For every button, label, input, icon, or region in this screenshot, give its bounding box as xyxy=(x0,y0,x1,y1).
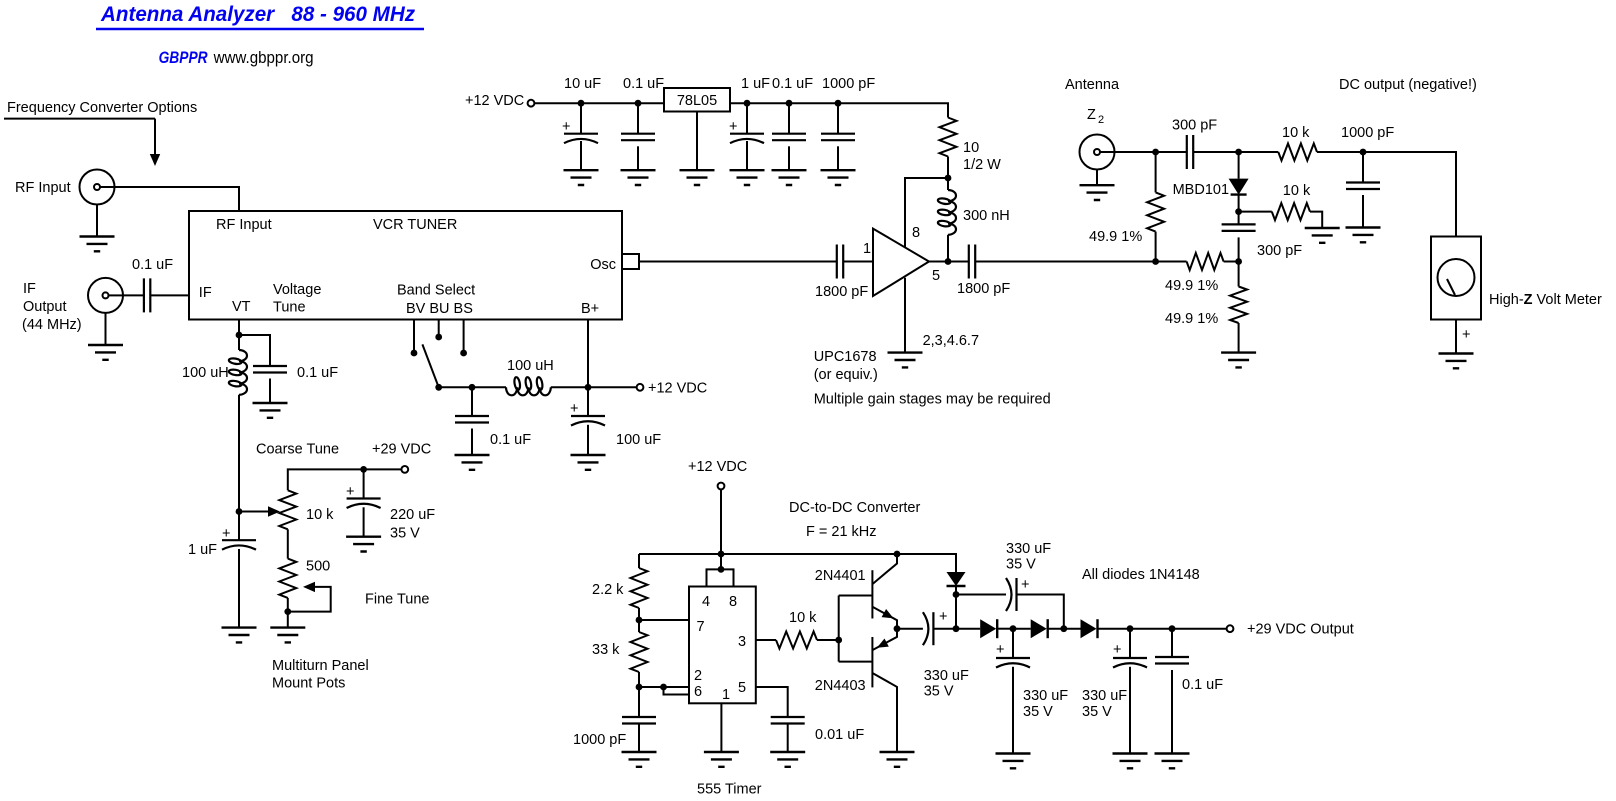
svg-text:+: + xyxy=(562,119,570,135)
wire node E to R7 xyxy=(1156,261,1187,263)
svg-text:www.gbppr.org: www.gbppr.org xyxy=(213,49,314,67)
ground C23 xyxy=(1155,754,1190,769)
wire node I to D4 xyxy=(1013,628,1031,630)
svg-text:+: + xyxy=(346,484,354,500)
wire C4 stem xyxy=(788,103,790,134)
wire C15 stem xyxy=(471,387,473,416)
wire J2 to C6 xyxy=(123,294,144,296)
resistor R10 33 k xyxy=(638,620,640,632)
junction xyxy=(945,258,952,265)
svg-text:500: 500 xyxy=(306,559,330,575)
svg-text:0.01 uF: 0.01 uF xyxy=(815,727,864,743)
svg-text:35 V: 35 V xyxy=(1082,704,1112,720)
ground Q2 xyxy=(880,752,915,767)
junction VT node xyxy=(236,332,243,339)
svg-text:8: 8 xyxy=(729,594,737,610)
capacitor C10 1000 pF xyxy=(1346,183,1380,190)
ground U1 xyxy=(888,353,923,368)
svg-text:10 k: 10 k xyxy=(306,507,334,523)
capacitor C23 0.1 uF xyxy=(1171,629,1173,657)
terminal +12 VDC xyxy=(528,100,535,107)
wire C3 stem xyxy=(746,103,748,134)
ground R8 xyxy=(1221,353,1256,368)
svg-text:10 k: 10 k xyxy=(1282,125,1310,141)
wire C1 stem xyxy=(580,103,582,134)
capacitor C14 220 uF 35V xyxy=(363,469,365,498)
wire R5 to node C xyxy=(1317,151,1363,153)
junction node B xyxy=(1235,149,1242,156)
wire D3 to node I xyxy=(997,628,1013,630)
svg-text:IF: IF xyxy=(199,285,212,301)
junction pin7 node xyxy=(636,617,643,624)
capacitor C9 300 pF xyxy=(1187,135,1193,169)
junction node G xyxy=(953,625,960,632)
svg-text:Fine Tune: Fine Tune xyxy=(365,592,430,608)
inductor L2 100 uH xyxy=(238,335,240,350)
contact BV xyxy=(411,350,418,357)
junction xyxy=(578,100,585,107)
wire VT to C12 xyxy=(239,335,270,366)
svg-text:+: + xyxy=(729,119,737,135)
svg-text:(or equiv.): (or equiv.) xyxy=(814,367,878,383)
svg-text:2: 2 xyxy=(1098,114,1104,126)
wire C7 to amp xyxy=(843,261,873,263)
ground C1 xyxy=(564,170,599,185)
svg-text:+: + xyxy=(939,609,947,625)
wire D5 to node K xyxy=(1098,628,1131,630)
connector Z2 antenna BNC xyxy=(1080,135,1115,170)
terminal +29 VDC Output xyxy=(1227,625,1234,632)
pin BU stub xyxy=(438,320,440,338)
ground C16 xyxy=(571,455,606,470)
svg-text:1: 1 xyxy=(863,241,871,257)
wire to +12 terminal xyxy=(588,386,637,388)
ground R3 xyxy=(270,628,305,643)
wire Z2 to node A xyxy=(1115,151,1156,153)
wire VT pin down xyxy=(238,320,240,336)
wire U1 gnd stem xyxy=(904,278,906,353)
capacitor C5 1000 pF xyxy=(821,134,855,141)
wire C17 stem xyxy=(638,687,640,717)
wire band rail xyxy=(439,386,506,388)
svg-text:+12 VDC: +12 VDC xyxy=(465,93,524,109)
ground C21 xyxy=(996,754,1031,769)
wire C19 to node G xyxy=(933,628,956,630)
wire rail to 2.2k xyxy=(638,554,640,568)
svg-text:300 nH: 300 nH xyxy=(963,208,1010,224)
ground C15 xyxy=(455,455,490,470)
wire C5 stem xyxy=(837,103,839,134)
regulator U3 78L05 xyxy=(664,88,730,112)
wire pin 7 xyxy=(639,619,689,621)
wire R3 to gnd xyxy=(287,612,289,628)
terminal +12 VDC band xyxy=(637,384,644,391)
svg-text:2N4403: 2N4403 xyxy=(815,678,866,694)
ground C2 xyxy=(621,170,656,185)
junction xyxy=(835,100,842,107)
svg-text:Multiturn Panel: Multiturn Panel xyxy=(272,658,369,674)
wire R7 to node F xyxy=(1224,261,1239,263)
ground C22 xyxy=(1113,754,1148,769)
svg-text:0.1 uF: 0.1 uF xyxy=(772,76,813,92)
wire R1 to node xyxy=(947,157,949,179)
wire to pin 8 xyxy=(905,178,948,248)
svg-text:2: 2 xyxy=(694,668,702,684)
ground C5 xyxy=(821,170,856,185)
wire arrow down to RF input xyxy=(154,119,156,156)
junction base node xyxy=(835,637,842,644)
wire bottom rail xyxy=(639,554,956,572)
wire pot join xyxy=(287,529,289,558)
wire pot top rail xyxy=(288,469,402,490)
svg-text:VT: VT xyxy=(232,299,251,315)
inductor L3 100 uH xyxy=(506,387,551,395)
wire fine wiper xyxy=(288,587,331,612)
junction xyxy=(284,608,291,615)
svg-text:IF: IF xyxy=(23,281,36,297)
svg-text:5: 5 xyxy=(932,268,940,284)
inductor L1 300 nH xyxy=(947,178,949,190)
svg-text:5: 5 xyxy=(738,680,746,696)
wire node D to R6 xyxy=(1239,211,1272,213)
diode D4 1N4148 xyxy=(1031,619,1047,638)
svg-text:2,3,4.6.7: 2,3,4.6.7 xyxy=(923,333,979,349)
wire pins 4-8 bracket xyxy=(707,569,734,586)
pin BV stub xyxy=(413,320,415,354)
wire to +29 output xyxy=(1172,628,1227,630)
svg-text:330 uF: 330 uF xyxy=(1023,688,1068,704)
svg-text:330 uF: 330 uF xyxy=(924,668,969,684)
ground pin1 xyxy=(704,752,739,767)
svg-text:100 uF: 100 uF xyxy=(616,432,661,448)
svg-text:UPC1678: UPC1678 xyxy=(814,349,877,365)
svg-text:35 V: 35 V xyxy=(390,526,420,542)
svg-text:330 uF: 330 uF xyxy=(1082,688,1127,704)
svg-text:Coarse Tune: Coarse Tune xyxy=(256,442,339,458)
junction node J xyxy=(1060,625,1067,632)
capacitor C15 0.1 uF xyxy=(455,416,489,423)
capacitor C2 0.1 uF xyxy=(621,134,655,141)
resistor R5 10 k xyxy=(1278,144,1317,161)
wire D4 to node J xyxy=(1048,628,1064,630)
svg-text:Osc: Osc xyxy=(590,257,616,273)
junction xyxy=(635,100,642,107)
junction node A xyxy=(1152,149,1159,156)
svg-text:1000 pF: 1000 pF xyxy=(1341,125,1394,141)
ground meter xyxy=(1439,354,1474,369)
svg-text:BV BU BS: BV BU BS xyxy=(406,301,473,317)
junction node H xyxy=(953,591,960,598)
wire node H to C20 xyxy=(956,594,1006,596)
svg-text:49.9 1%: 49.9 1% xyxy=(1089,229,1142,245)
svg-text:10 k: 10 k xyxy=(789,610,817,626)
wire pin 1 gnd xyxy=(720,703,722,752)
ground C10 xyxy=(1346,228,1381,243)
svg-text:GBPPR: GBPPR xyxy=(159,49,208,67)
svg-text:220 uF: 220 uF xyxy=(390,507,435,523)
svg-text:+29 VDC: +29 VDC xyxy=(372,442,431,458)
arrowhead xyxy=(150,154,160,166)
svg-text:10 k: 10 k xyxy=(1283,183,1311,199)
wire 1 uF stem xyxy=(238,512,240,541)
ground C18 xyxy=(770,752,805,767)
svg-text:+12 VDC: +12 VDC xyxy=(688,459,747,475)
svg-text:300 pF: 300 pF xyxy=(1257,243,1302,259)
svg-text:Multiple gain stages may be re: Multiple gain stages may be required xyxy=(814,392,1051,408)
resistor R1 10 1/2W xyxy=(940,118,957,157)
pin BS stub xyxy=(463,320,465,354)
svg-text:+29 VDC Output: +29 VDC Output xyxy=(1247,622,1354,638)
meter M1 High-Z Volt Meter xyxy=(1431,237,1481,320)
svg-text:1: 1 xyxy=(722,687,730,703)
capacitor C20 330 uF 35V top xyxy=(1015,578,1017,611)
svg-text:Band Select: Band Select xyxy=(397,283,475,299)
junction node C xyxy=(1360,149,1367,156)
IC U4 555 timer box xyxy=(689,587,756,704)
wire node C to meter xyxy=(1363,152,1456,237)
junction emitters xyxy=(894,625,901,632)
svg-text:Frequency Converter Options: Frequency Converter Options xyxy=(7,100,197,116)
junction node K xyxy=(1127,625,1134,632)
ground C14 xyxy=(346,537,381,552)
wire C2 stem xyxy=(637,103,639,134)
svg-text:35 V: 35 V xyxy=(924,684,954,700)
wire C8 to bridge node xyxy=(975,261,1155,263)
junction xyxy=(894,551,901,558)
svg-text:100 uH: 100 uH xyxy=(182,365,229,381)
svg-text:+: + xyxy=(222,526,230,542)
wire C10 stem xyxy=(1362,152,1364,183)
svg-text:DC-to-DC Converter: DC-to-DC Converter xyxy=(789,500,920,516)
capacitor C3 1 uF xyxy=(730,133,764,135)
wire +12 down xyxy=(720,489,722,569)
resistor R11 10 k xyxy=(776,632,817,649)
capacitor C19 330 uF 35V xyxy=(932,612,934,645)
svg-text:8: 8 xyxy=(912,225,920,241)
svg-text:+12 VDC: +12 VDC xyxy=(648,381,707,397)
svg-text:Z: Z xyxy=(1087,107,1096,123)
resistor R8 49.9 1% to ground xyxy=(1238,262,1240,287)
svg-text:1000 pF: 1000 pF xyxy=(822,76,875,92)
svg-text:RF Input: RF Input xyxy=(216,217,272,233)
junction node I xyxy=(1010,625,1017,632)
svg-text:7: 7 xyxy=(697,619,705,635)
svg-text:F = 21 kHz: F = 21 kHz xyxy=(806,524,877,540)
svg-text:49.9 1%: 49.9 1% xyxy=(1165,278,1218,294)
capacitor C7 1800 pF xyxy=(837,245,843,279)
junction pin2 node xyxy=(636,684,643,691)
svg-text:Output: Output xyxy=(23,299,67,315)
wire node H down xyxy=(955,595,957,629)
svg-text:1800 pF: 1800 pF xyxy=(815,284,868,300)
switch arm xyxy=(422,344,438,387)
svg-text:300 pF: 300 pF xyxy=(1172,118,1217,134)
ground J1 xyxy=(96,205,98,237)
svg-text:Tune: Tune xyxy=(273,300,306,316)
capacitor C18 0.01 uF xyxy=(771,717,805,724)
ground C4 xyxy=(772,170,807,185)
wire emitters to C19 xyxy=(897,628,923,630)
svg-text:35 V: 35 V xyxy=(1023,704,1053,720)
wire C6 to tuner IF pin xyxy=(150,294,189,296)
wire U1 out to node xyxy=(929,261,948,263)
svg-text:330 uF: 330 uF xyxy=(1006,541,1051,557)
junction xyxy=(718,551,725,558)
svg-text:3: 3 xyxy=(738,634,746,650)
op-amp U1 triangle xyxy=(873,229,929,296)
junction xyxy=(660,684,667,691)
svg-text:0.1 uF: 0.1 uF xyxy=(623,76,664,92)
capacitor C21 330 uF 35V xyxy=(1012,629,1014,658)
svg-text:1000 pF: 1000 pF xyxy=(573,732,626,748)
svg-text:1/2 W: 1/2 W xyxy=(963,157,1001,173)
ground Z2 xyxy=(1096,170,1098,186)
diode D3 1N4148 xyxy=(956,628,980,630)
junction xyxy=(786,100,793,107)
wire pin 3 xyxy=(756,639,776,641)
diode D2 1N4148 vertical xyxy=(947,572,966,586)
ground C12 xyxy=(253,403,288,418)
wire node B to R5 xyxy=(1239,151,1279,153)
diode D5 1N4148 xyxy=(1081,619,1097,638)
svg-text:MBD101: MBD101 xyxy=(1173,182,1229,198)
wire pin 2/6 link xyxy=(639,686,689,688)
junction node F xyxy=(1235,258,1242,265)
wire node J to D5 xyxy=(1064,628,1081,630)
wire R6 to gnd xyxy=(1310,212,1322,228)
svg-text:4: 4 xyxy=(702,594,710,610)
junction xyxy=(360,466,367,473)
wire note underline leader xyxy=(4,118,155,120)
svg-text:0.1 uF: 0.1 uF xyxy=(1182,677,1223,693)
svg-text:1 uF: 1 uF xyxy=(188,542,217,558)
junction xyxy=(469,384,476,391)
svg-text:Antenna Analyzer 88 - 960 MH: Antenna Analyzer 88 - 960 MHz xyxy=(100,3,415,26)
svg-text:0.1 uF: 0.1 uF xyxy=(132,257,173,273)
svg-text:10: 10 xyxy=(963,140,979,156)
svg-text:0.1 uF: 0.1 uF xyxy=(490,432,531,448)
connector J2 IF Output BNC xyxy=(88,278,123,313)
wire node K to node L xyxy=(1130,628,1172,630)
wire wiper arrow xyxy=(239,511,270,513)
svg-text:+: + xyxy=(996,642,1004,658)
svg-text:1800 pF: 1800 pF xyxy=(957,281,1010,297)
transistor Q2 2N4403 PNP xyxy=(871,637,873,687)
junction switch node xyxy=(435,384,442,391)
module U2 VCR TUNER box xyxy=(189,211,622,320)
wire node A to C9 xyxy=(1156,151,1187,153)
junction node D xyxy=(1235,208,1242,215)
wire U3 ground stem xyxy=(696,112,698,171)
capacitor C1 10 uF xyxy=(564,133,598,135)
svg-text:+: + xyxy=(570,401,578,417)
svg-text:33 k: 33 k xyxy=(592,642,620,658)
svg-text:B+: B+ xyxy=(581,301,599,317)
svg-text:+: + xyxy=(1462,327,1470,343)
capacitor C8 1800 pF xyxy=(969,245,975,279)
junction node E xyxy=(1152,258,1159,265)
svg-text:49.9 1%: 49.9 1% xyxy=(1165,311,1218,327)
wire base feed xyxy=(838,596,840,662)
terminal +29 VDC xyxy=(401,466,408,473)
junction bracket xyxy=(718,566,725,573)
wire C20 to corner xyxy=(1017,595,1064,629)
svg-text:1 uF: 1 uF xyxy=(741,76,770,92)
svg-text:2.2 k: 2.2 k xyxy=(592,582,624,598)
resistor R9 2.2 k xyxy=(631,568,648,608)
diode D1 MBD101 xyxy=(1238,152,1240,179)
svg-text:6: 6 xyxy=(694,684,702,700)
wire R3 bottom xyxy=(287,598,289,612)
junction node L xyxy=(1169,625,1176,632)
capacitor C12 0.1 uF xyxy=(253,366,287,373)
resistor R7 49.9 1% horizontal xyxy=(1187,253,1224,270)
resistor R6 10 k xyxy=(1272,203,1310,220)
svg-text:(44 MHz): (44 MHz) xyxy=(22,317,82,333)
potentiometer R2 10 k xyxy=(279,490,296,529)
capacitor C17 1000 pF xyxy=(622,717,656,724)
contact BS xyxy=(460,350,467,357)
pin B+ wire xyxy=(587,320,589,388)
capacitor C16 100 uF xyxy=(587,387,589,416)
pin Osc square xyxy=(622,254,639,269)
svg-text:0.1 uF: 0.1 uF xyxy=(297,365,338,381)
svg-text:RF Input: RF Input xyxy=(15,180,71,196)
junction xyxy=(744,100,751,107)
svg-text:555 Timer: 555 Timer xyxy=(697,782,762,798)
svg-text:2N4401: 2N4401 xyxy=(815,568,866,584)
wire pin 5 xyxy=(756,687,788,717)
potentiometer R3 500 xyxy=(279,559,296,598)
svg-text:High-Z Volt Meter: High-Z Volt Meter xyxy=(1489,292,1602,308)
junction B+ node xyxy=(585,384,592,391)
svg-text:100 uH: 100 uH xyxy=(507,358,554,374)
ground U3 xyxy=(680,170,715,185)
wire RF input to tuner xyxy=(115,187,240,211)
terminal +12 VDC bottom xyxy=(718,483,725,490)
svg-text:All diodes 1N4148: All diodes 1N4148 xyxy=(1082,567,1200,583)
svg-text:Voltage: Voltage xyxy=(273,282,321,298)
wire R9 to node xyxy=(638,608,640,620)
transistor Q1 2N4401 NPN xyxy=(871,570,873,618)
ground R6 xyxy=(1305,228,1340,243)
junction wiper node xyxy=(236,508,243,515)
wire R11 to base node xyxy=(817,639,839,641)
svg-text:Mount Pots: Mount Pots xyxy=(272,676,345,692)
wire meter to gnd xyxy=(1455,320,1457,354)
svg-text:+: + xyxy=(1113,642,1121,658)
capacitor C13 1 uF xyxy=(222,539,256,541)
resistor R4 49.9 1% vertical xyxy=(1155,152,1157,192)
svg-text:VCR TUNER: VCR TUNER xyxy=(373,217,457,233)
wire +12 rail left xyxy=(534,102,664,104)
capacitor C4 0.1 uF xyxy=(772,134,806,141)
wire Osc to C7 xyxy=(639,261,837,263)
svg-text:DC output (negative!): DC output (negative!) xyxy=(1339,77,1477,93)
wire node to C8 xyxy=(948,261,969,263)
capacitor C6 0.1 uF coupling xyxy=(144,278,150,312)
capacitor C22 330 uF 35V xyxy=(1129,629,1131,658)
ground C13 xyxy=(222,628,257,643)
svg-text:10 uF: 10 uF xyxy=(564,76,601,92)
svg-text:Antenna: Antenna xyxy=(1065,77,1120,93)
ground C3 xyxy=(730,170,765,185)
contact BU xyxy=(435,334,442,341)
ground C17 xyxy=(622,752,657,767)
svg-text:78L05: 78L05 xyxy=(677,93,717,109)
junction node supply xyxy=(945,175,952,182)
svg-text:35 V: 35 V xyxy=(1006,557,1036,573)
